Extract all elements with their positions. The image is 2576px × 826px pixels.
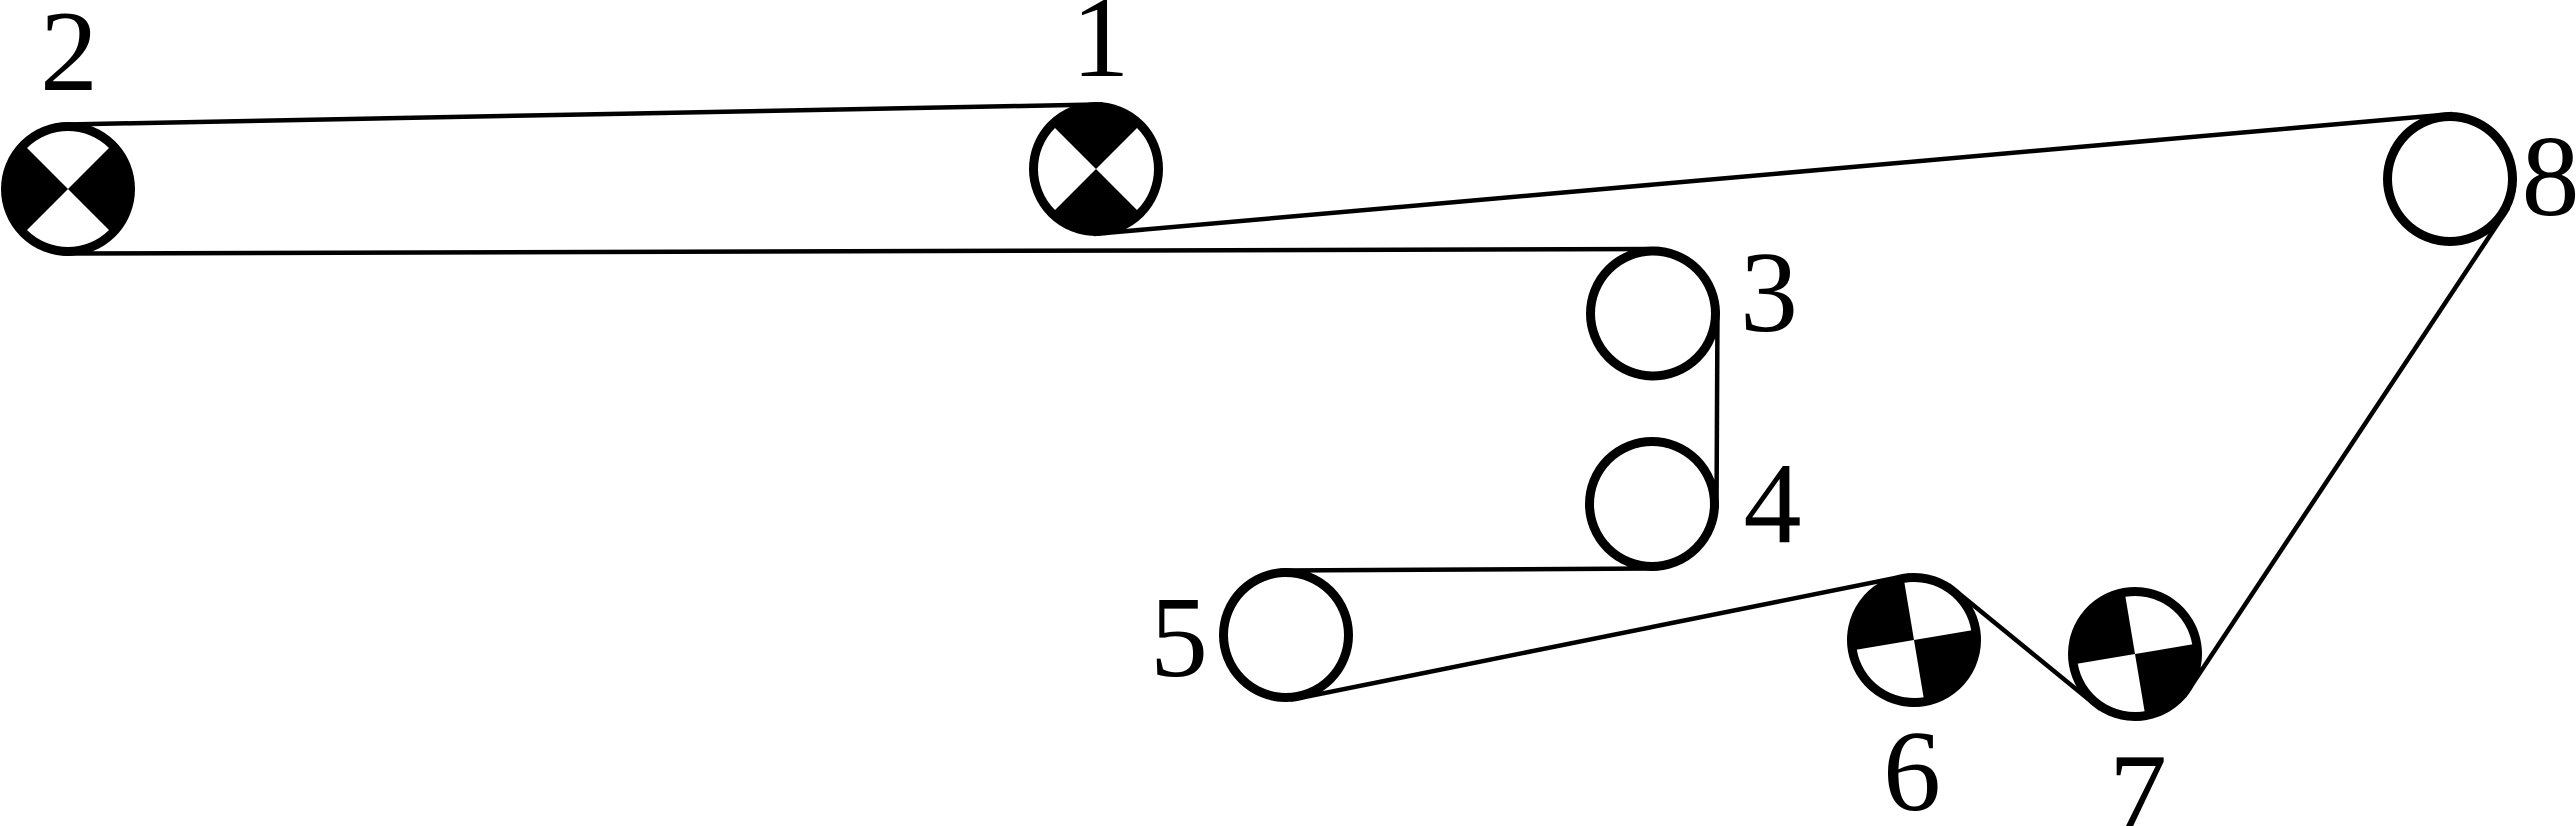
roller 7 (quadrant symbol) bbox=[2063, 582, 2207, 726]
wire belt 2-1 top bbox=[61, 104, 1103, 124]
svg-text:8: 8 bbox=[2522, 113, 2576, 241]
roller 8 bbox=[2388, 117, 2513, 242]
roller 4 bbox=[1590, 442, 1715, 567]
svg-text:3: 3 bbox=[1740, 229, 1798, 357]
svg-text:5: 5 bbox=[1150, 574, 1208, 702]
roller 2 (45-deg quadrant symbol) bbox=[6, 127, 131, 252]
svg-text:6: 6 bbox=[1883, 708, 1941, 826]
wire web 5-6 bbox=[1291, 575, 1909, 700]
svg-text:1: 1 bbox=[1072, 0, 1130, 102]
wire web 3-4 right side bbox=[1717, 310, 1718, 509]
wire web 2-3 (passes under roller 1) bbox=[62, 249, 1659, 254]
wire web 6-7 bbox=[1949, 585, 2101, 709]
svg-text:2: 2 bbox=[40, 0, 98, 116]
roller 5 bbox=[1224, 573, 1349, 698]
roller 6 (quadrant symbol) bbox=[1842, 568, 1986, 712]
wire web 1-8 bbox=[1094, 114, 2453, 234]
wire web 8-7 bbox=[2184, 208, 2508, 696]
wire web 4-5 bottom bbox=[1280, 569, 1659, 571]
svg-text:4: 4 bbox=[1744, 440, 1802, 568]
roller 3 bbox=[1591, 251, 1716, 376]
svg-text:7: 7 bbox=[2109, 731, 2167, 826]
roller 1 (45-deg quadrant symbol) bbox=[1034, 107, 1159, 232]
